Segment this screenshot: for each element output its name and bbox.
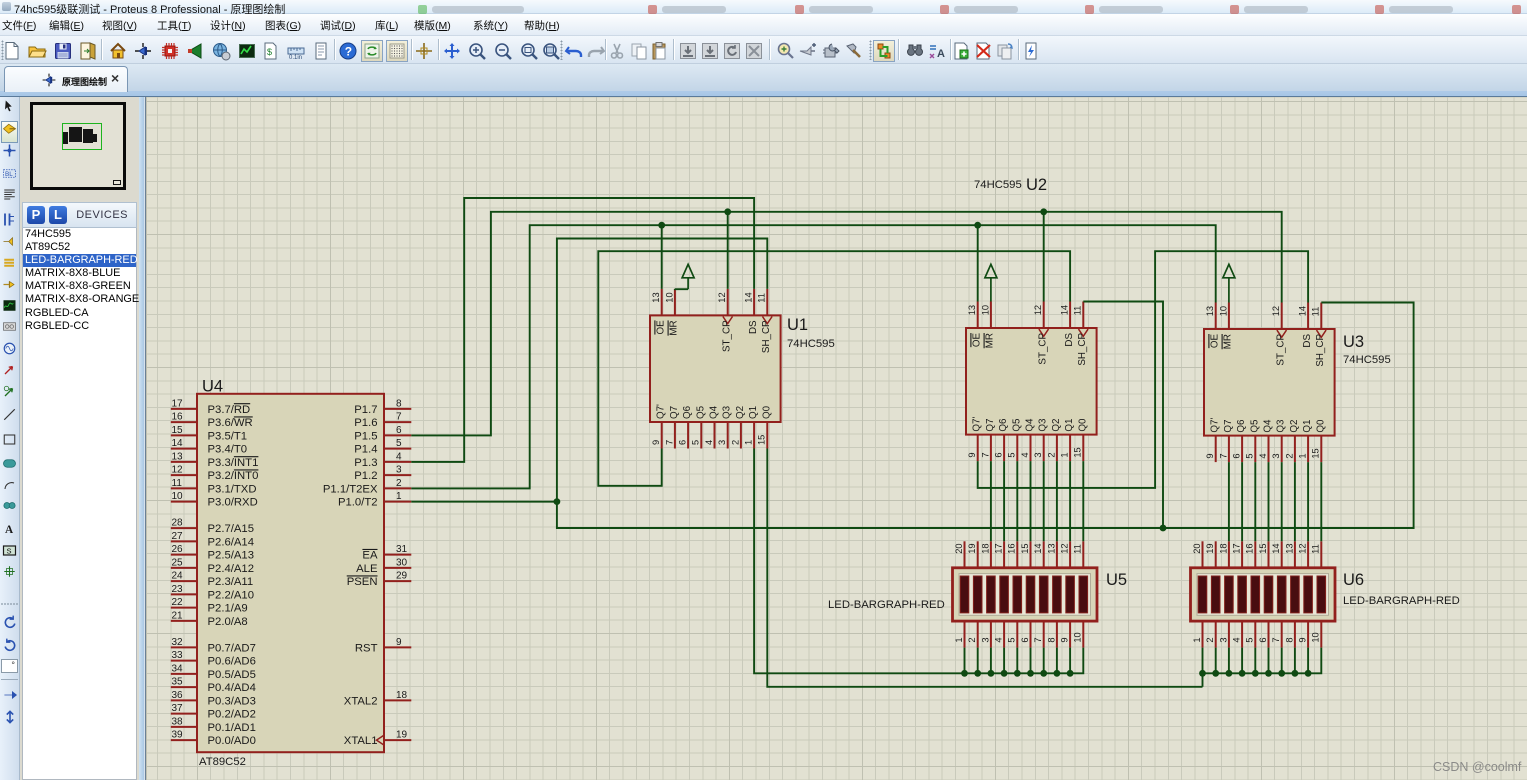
U4 right pins P1.x EA ALE PSEN RST XTAL: [323, 398, 411, 747]
svg-text:4: 4: [1020, 452, 1030, 457]
svg-text:7: 7: [396, 412, 402, 423]
svg-text:12: 12: [717, 292, 727, 302]
svg-text:SH_CP: SH_CP: [761, 320, 772, 353]
svg-text:10: 10: [172, 491, 184, 502]
svg-text:26: 26: [172, 544, 184, 555]
svg-text:BL: BL: [5, 171, 13, 178]
svg-text:11: 11: [172, 478, 183, 489]
svg-text:DS: DS: [1064, 333, 1075, 347]
svg-text:Q7: Q7: [1223, 420, 1234, 433]
svg-text:P0.2/AD2: P0.2/AD2: [208, 709, 256, 721]
svg-text:16: 16: [1245, 543, 1255, 553]
svg-text:3: 3: [1218, 637, 1228, 642]
svg-text:Q3: Q3: [1276, 419, 1287, 433]
U2 bottom pins (Q7..Q0 outputs): [967, 417, 1088, 462]
svg-text:6: 6: [1232, 453, 1242, 458]
svg-text:5: 5: [1007, 452, 1017, 457]
svg-text:15: 15: [1073, 447, 1083, 457]
svg-text:XTAL2: XTAL2: [344, 695, 378, 707]
LED bargraph U6 body: [1191, 568, 1336, 621]
svg-text:RST: RST: [355, 642, 378, 654]
svg-text:9: 9: [651, 440, 661, 445]
svg-text:11: 11: [1073, 306, 1083, 316]
svg-text:OE: OE: [1210, 334, 1221, 349]
svg-text:9: 9: [1298, 637, 1308, 642]
svg-text:P0.0/AD0: P0.0/AD0: [208, 735, 256, 747]
wire net OE bus: U4 P1.1/T2EX to OE of U1,U2,U3: [411, 225, 1215, 488]
wire: U1 Q1 to U5 cathode bus: [754, 449, 1083, 674]
svg-text:P0.6/AD6: P0.6/AD6: [208, 656, 256, 668]
svg-text:P2.0/A8: P2.0/A8: [208, 616, 248, 628]
svg-text:DS: DS: [748, 320, 759, 334]
svg-text:P2.4/A12: P2.4/A12: [208, 563, 254, 575]
wire cascade: U2 Q7 pin9 to U3 pin14 DS: [978, 251, 1308, 488]
wire bus: U3 outputs Q7..Q0 down to U6 pins 18..11: [1229, 462, 1321, 541]
svg-text:$: $: [267, 47, 272, 57]
svg-text:AT89C52: AT89C52: [199, 756, 246, 768]
svg-text:3: 3: [1271, 453, 1281, 458]
svg-text:P1.4: P1.4: [354, 444, 377, 456]
svg-text:20: 20: [954, 543, 964, 553]
svg-text:U6: U6: [1343, 571, 1364, 589]
U5 reference label: [1106, 571, 1127, 589]
svg-text:OE: OE: [656, 320, 667, 335]
svg-text:3: 3: [396, 465, 402, 476]
svg-text:U3: U3: [1343, 333, 1364, 351]
svg-text:12: 12: [172, 465, 184, 476]
svg-text:23: 23: [172, 584, 184, 595]
svg-text:8: 8: [1046, 637, 1056, 642]
svg-text:Q3: Q3: [722, 405, 733, 419]
svg-text:P2.1/A9: P2.1/A9: [208, 603, 248, 615]
wire: U1 Q0 to U6 cathode bus: [767, 449, 1321, 687]
svg-text:7: 7: [664, 440, 674, 445]
object selector panel: [20, 97, 139, 780]
svg-text:0.1in: 0.1in: [289, 55, 302, 61]
svg-text:1: 1: [1298, 453, 1308, 458]
wire: U1 MR jog to power arrow: [675, 288, 688, 290]
svg-text:ST_CP: ST_CP: [722, 320, 733, 352]
U5 top pins 20..11: [954, 541, 1083, 568]
svg-text:Q7: Q7: [669, 406, 680, 419]
svg-text:P3.5/T1: P3.5/T1: [208, 430, 248, 442]
svg-text:11: 11: [1311, 544, 1321, 554]
svg-text:6: 6: [396, 425, 402, 436]
svg-text:Q7': Q7': [1210, 418, 1221, 433]
svg-text:P2.6/A14: P2.6/A14: [208, 536, 254, 548]
svg-text:Q4: Q4: [1263, 419, 1274, 433]
svg-text:11: 11: [757, 293, 767, 303]
svg-text:2: 2: [396, 478, 402, 489]
main toolbar: [0, 36, 1527, 64]
svg-text:32: 32: [172, 637, 184, 648]
svg-text:13: 13: [651, 292, 661, 302]
svg-text:35: 35: [172, 677, 184, 688]
U4 value label AT89C52: [199, 756, 246, 768]
svg-text:74HC595: 74HC595: [974, 179, 1022, 191]
svg-text:7: 7: [980, 452, 990, 457]
svg-text:4: 4: [994, 637, 1004, 642]
svg-text:CSDN @coolmf: CSDN @coolmf: [1433, 760, 1522, 774]
svg-text:P2.3/A11: P2.3/A11: [208, 576, 254, 588]
svg-text:15: 15: [172, 425, 184, 436]
svg-text:2: 2: [1046, 452, 1056, 457]
U5 value label LED-BARGRAPH-RED: [828, 599, 945, 611]
U3 top pins (13 OE, 10 MR, 12 ST_CP, 14 DS, 11 SH_CP): [1205, 303, 1326, 367]
svg-text:4: 4: [1232, 637, 1242, 642]
svg-text:P0.1/AD1: P0.1/AD1: [208, 722, 256, 734]
svg-text:Q1: Q1: [1064, 419, 1075, 432]
svg-text:2: 2: [1205, 637, 1215, 642]
svg-text:ST_CP: ST_CP: [1038, 333, 1049, 365]
svg-text:29: 29: [396, 571, 408, 582]
svg-text:1: 1: [1192, 637, 1202, 642]
wire bus: U2 outputs Q7..Q0 down to U5 pins 18..11: [991, 461, 1083, 541]
svg-text:Q2: Q2: [1289, 420, 1300, 433]
microcontroller U4 AT89C52 body: [197, 394, 384, 752]
svg-text:5: 5: [1245, 637, 1255, 642]
svg-text:13: 13: [172, 451, 184, 462]
svg-text:Q5: Q5: [695, 405, 706, 419]
svg-text:P3.0/RXD: P3.0/RXD: [208, 497, 258, 509]
svg-text:Q4: Q4: [1025, 418, 1036, 432]
svg-text:6: 6: [1258, 637, 1268, 642]
svg-text:Q3: Q3: [1038, 418, 1049, 432]
U3 value label 74HC595: [1343, 354, 1391, 366]
svg-text:22: 22: [172, 597, 184, 608]
wire net SH_CP: U4 P1.0/T2 to SH_CP of U1,U2,U3: [411, 239, 1413, 529]
svg-text:34: 34: [172, 663, 184, 674]
74HC595 shift register U2 body: [966, 328, 1097, 435]
svg-text:10: 10: [1073, 632, 1083, 642]
svg-text:MR: MR: [669, 320, 680, 335]
left mode toolbar: [0, 97, 20, 780]
svg-text:2: 2: [967, 637, 977, 642]
svg-text:2: 2: [1284, 453, 1294, 458]
U6 reference label: [1343, 571, 1364, 589]
svg-text:Q2: Q2: [1051, 419, 1062, 432]
menu bar: [0, 14, 1527, 36]
svg-text:U5: U5: [1106, 571, 1127, 589]
svg-text:9: 9: [1205, 453, 1215, 458]
svg-text:7: 7: [1271, 637, 1281, 642]
power terminal (VCC arrow) at U1 MR pin: [682, 264, 694, 289]
wire net DS1: U4 P1.3 to U1 pin14 DS: [411, 198, 754, 462]
junction nodes (solder dots): [554, 208, 1312, 676]
svg-text:19: 19: [967, 543, 977, 553]
svg-text:P3.7/RD: P3.7/RD: [208, 404, 251, 416]
U2 reference label: [1026, 176, 1047, 194]
svg-text:4: 4: [704, 440, 714, 445]
svg-text:P3.6/WR: P3.6/WR: [208, 417, 253, 429]
svg-text:P0.4/AD4: P0.4/AD4: [208, 682, 256, 694]
svg-text:3: 3: [717, 440, 727, 445]
U6 top pins 20..11: [1192, 541, 1321, 568]
svg-text:P3.4/T0: P3.4/T0: [208, 444, 248, 456]
power terminal (VCC arrow) at U3 MR pin: [1223, 264, 1235, 302]
svg-text:9: 9: [396, 637, 402, 648]
U4 left pins P3.x P2.x P0.x: [171, 398, 259, 747]
svg-text:Q4: Q4: [709, 405, 720, 419]
svg-text:Q5: Q5: [1249, 419, 1260, 433]
svg-text:1: 1: [954, 637, 964, 642]
svg-text:P0.3/AD3: P0.3/AD3: [208, 695, 256, 707]
svg-text:38: 38: [172, 716, 184, 727]
svg-text:13: 13: [1046, 543, 1056, 553]
svg-text:P1.6: P1.6: [354, 417, 377, 429]
svg-text:U1: U1: [787, 316, 808, 334]
wire net ST_CP bus: U4 P1.5 to ST_CP of U1,U2,U3: [411, 212, 1281, 436]
svg-text:Q0: Q0: [1315, 419, 1326, 433]
svg-text:16: 16: [1007, 543, 1017, 553]
svg-text:ST_CP: ST_CP: [1276, 334, 1287, 366]
svg-text:1: 1: [396, 491, 402, 502]
U1 value label 74HC595: [787, 338, 835, 350]
svg-text:Q7: Q7: [985, 419, 996, 432]
svg-text:19: 19: [396, 730, 408, 741]
svg-text:5: 5: [396, 438, 402, 449]
svg-text:37: 37: [172, 703, 184, 714]
svg-text:14: 14: [1271, 543, 1281, 553]
U1 bottom pins (Q7..Q0 outputs): [651, 404, 772, 449]
svg-text:Q2: Q2: [735, 406, 746, 419]
svg-text:74HC595: 74HC595: [1343, 354, 1391, 366]
svg-text:19: 19: [1205, 543, 1215, 553]
svg-text:Q6: Q6: [1236, 419, 1247, 433]
svg-text:12: 12: [1298, 543, 1308, 553]
svg-text:16: 16: [172, 412, 184, 423]
svg-text:4: 4: [1258, 453, 1268, 458]
svg-text:6: 6: [678, 440, 688, 445]
svg-text:Q7': Q7': [972, 417, 983, 432]
svg-text:15: 15: [1020, 543, 1030, 553]
svg-text:SH_CP: SH_CP: [1315, 334, 1326, 367]
svg-text:33: 33: [172, 650, 184, 661]
U1 top pins (13 OE, 10 MR, 12 ST_CP, 14 DS, 11 SH_CP): [651, 289, 772, 353]
wire cascade: U1 Q7 pin9 to U2 pin14 DS: [598, 251, 1070, 486]
U5 bottom pins 1..10: [954, 621, 1083, 648]
U3 reference label: [1343, 333, 1364, 351]
svg-text:P2.7/A15: P2.7/A15: [208, 523, 254, 535]
svg-text:12: 12: [1271, 306, 1281, 316]
svg-text:PSEN: PSEN: [347, 576, 378, 588]
U2 value label 74HC595: [974, 179, 1022, 191]
svg-text:EA: EA: [362, 550, 378, 562]
svg-text:Q0: Q0: [1077, 418, 1088, 432]
svg-text:20: 20: [1192, 543, 1202, 553]
svg-text:10: 10: [1218, 306, 1228, 316]
74HC595 shift register U1 body: [650, 315, 781, 422]
svg-text:39: 39: [172, 730, 184, 741]
svg-text:Q7': Q7': [656, 404, 667, 419]
U4 reference label: [202, 378, 223, 396]
svg-text:A: A: [5, 524, 14, 536]
U6 value label LED-BARGRAPH-RED: [1343, 595, 1460, 607]
svg-text:13: 13: [1205, 306, 1215, 316]
svg-text:P0.7/AD7: P0.7/AD7: [208, 642, 256, 654]
svg-text:Q6: Q6: [682, 405, 693, 419]
svg-text:14: 14: [744, 292, 754, 302]
svg-text:17: 17: [994, 543, 1004, 553]
svg-text:Q0: Q0: [761, 405, 772, 419]
svg-text:P1.7: P1.7: [354, 404, 377, 416]
svg-text:Q5: Q5: [1011, 418, 1022, 432]
svg-text:18: 18: [396, 690, 408, 701]
svg-text:P1.1/T2EX: P1.1/T2EX: [323, 483, 378, 495]
svg-text:ALE: ALE: [356, 563, 378, 575]
svg-text:18: 18: [1218, 543, 1228, 553]
svg-text:6: 6: [994, 452, 1004, 457]
schematic canvas: [145, 97, 1527, 780]
svg-text:25: 25: [172, 557, 184, 568]
U3 bottom pins (Q7..Q0 outputs): [1205, 418, 1326, 463]
svg-text:P3.3/INT1: P3.3/INT1: [208, 457, 259, 469]
svg-text:30: 30: [396, 557, 408, 568]
svg-text:36: 36: [172, 690, 184, 701]
power terminal (VCC arrow) at U2 MR pin: [985, 264, 997, 301]
svg-text:P2.5/A13: P2.5/A13: [208, 550, 254, 562]
svg-text:3: 3: [1033, 452, 1043, 457]
svg-text:10: 10: [664, 292, 674, 302]
svg-text:DS: DS: [1302, 334, 1313, 348]
svg-text:5: 5: [1245, 453, 1255, 458]
svg-text:A: A: [937, 48, 945, 60]
svg-text:U4: U4: [202, 378, 223, 396]
svg-text:P3.1/TXD: P3.1/TXD: [208, 483, 257, 495]
LED bargraph U5 body: [953, 568, 1098, 621]
svg-text:8: 8: [1284, 637, 1294, 642]
svg-text:28: 28: [172, 518, 184, 529]
svg-text:Q6: Q6: [998, 418, 1009, 432]
svg-text:13: 13: [967, 305, 977, 315]
svg-text:Q1: Q1: [748, 406, 759, 419]
svg-text:12: 12: [1033, 305, 1043, 315]
U1 reference label: [787, 316, 808, 334]
svg-text:7: 7: [1218, 453, 1228, 458]
svg-text:LED-BARGRAPH-RED: LED-BARGRAPH-RED: [1343, 595, 1460, 607]
svg-text:1: 1: [744, 440, 754, 445]
wire: U6 cathode pin drops 2..9: [1216, 648, 1308, 674]
svg-text:17: 17: [1232, 543, 1242, 553]
watermark: [1433, 760, 1522, 774]
svg-text:1: 1: [1060, 452, 1070, 457]
74HC595 shift register U3 body: [1204, 329, 1335, 436]
wire: U5 cathode pin drops 1..9: [965, 648, 1071, 674]
svg-text:5: 5: [1007, 637, 1017, 642]
U6 bottom pins 1..10: [1192, 621, 1321, 648]
svg-text:14: 14: [1298, 306, 1308, 316]
svg-text:4: 4: [396, 451, 402, 462]
svg-text:18: 18: [980, 543, 990, 553]
svg-text:15: 15: [1311, 448, 1321, 458]
svg-text:Q1: Q1: [1302, 420, 1313, 433]
svg-text:7: 7: [1033, 637, 1043, 642]
svg-text:P1.5: P1.5: [354, 430, 377, 442]
svg-text:14: 14: [172, 438, 184, 449]
svg-text:S: S: [7, 547, 12, 556]
svg-text:9: 9: [967, 452, 977, 457]
svg-text:74HC595: 74HC595: [787, 338, 835, 350]
svg-text:11: 11: [1311, 307, 1321, 317]
window title bar: [0, 0, 1527, 14]
svg-text:10: 10: [980, 305, 990, 315]
svg-text:3: 3: [980, 637, 990, 642]
svg-text:17: 17: [172, 398, 184, 409]
svg-text:U2: U2: [1026, 176, 1047, 194]
svg-text:9: 9: [1060, 637, 1070, 642]
svg-text:2: 2: [730, 440, 740, 445]
svg-text:15: 15: [757, 435, 767, 445]
svg-text:14: 14: [1060, 305, 1070, 315]
svg-text:31: 31: [396, 544, 408, 555]
svg-text:8: 8: [396, 398, 402, 409]
svg-text:P1.0/T2: P1.0/T2: [338, 497, 378, 509]
svg-text:MR: MR: [1223, 334, 1234, 349]
svg-text:OE: OE: [972, 333, 983, 348]
svg-text:XTAL1: XTAL1: [344, 735, 378, 747]
svg-text:P1.3: P1.3: [354, 457, 377, 469]
svg-text:10: 10: [1311, 632, 1321, 642]
svg-text:5: 5: [691, 440, 701, 445]
svg-text:MR: MR: [985, 333, 996, 348]
svg-text:P3.2/INT0: P3.2/INT0: [208, 470, 259, 482]
svg-text:12: 12: [1060, 543, 1070, 553]
svg-text:13: 13: [1284, 543, 1294, 553]
svg-text:11: 11: [1073, 544, 1083, 554]
svg-text:21: 21: [172, 610, 184, 621]
svg-text:15: 15: [1258, 543, 1268, 553]
svg-text:P1.2: P1.2: [354, 470, 377, 482]
svg-text:27: 27: [172, 531, 184, 542]
svg-text:24: 24: [172, 571, 184, 582]
svg-text:6: 6: [1020, 637, 1030, 642]
svg-text:14: 14: [1033, 543, 1043, 553]
svg-text:P2.2/A10: P2.2/A10: [208, 589, 254, 601]
document tab bar: [0, 64, 1527, 97]
svg-text:SH_CP: SH_CP: [1077, 333, 1088, 366]
svg-text:?: ?: [345, 45, 352, 59]
U2 top pins (13 OE, 10 MR, 12 ST_CP, 14 DS, 11 SH_CP): [967, 302, 1088, 366]
svg-text:LED-BARGRAPH-RED: LED-BARGRAPH-RED: [828, 599, 945, 611]
svg-text:P0.5/AD5: P0.5/AD5: [208, 669, 256, 681]
